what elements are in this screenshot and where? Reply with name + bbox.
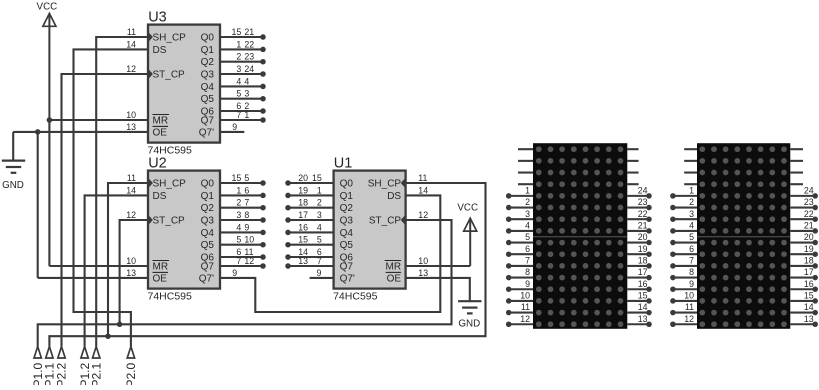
svg-text:Q4: Q4 [201, 82, 215, 93]
svg-text:21: 21 [638, 220, 648, 230]
svg-text:DS: DS [387, 191, 401, 202]
svg-text:16: 16 [804, 279, 814, 289]
svg-text:9: 9 [689, 279, 694, 289]
svg-text:Q3: Q3 [201, 70, 215, 81]
svg-text:14: 14 [638, 302, 648, 312]
svg-text:1: 1 [317, 185, 322, 195]
svg-text:SH_CP: SH_CP [153, 179, 187, 190]
svg-text:9: 9 [232, 122, 237, 132]
svg-text:22: 22 [804, 209, 814, 219]
svg-text:10: 10 [684, 291, 694, 301]
svg-text:4: 4 [236, 76, 241, 86]
svg-text:2: 2 [317, 198, 322, 208]
svg-text:5: 5 [236, 89, 241, 99]
svg-text:17: 17 [298, 210, 308, 220]
svg-text:Q5: Q5 [201, 94, 215, 105]
svg-text:13: 13 [126, 268, 136, 278]
svg-text:VCC: VCC [457, 202, 478, 213]
svg-text:12: 12 [520, 314, 530, 324]
svg-text:23: 23 [638, 197, 648, 207]
svg-text:4: 4 [689, 220, 694, 230]
svg-text:5: 5 [236, 235, 241, 245]
svg-text:6: 6 [525, 244, 530, 254]
svg-text:4: 4 [236, 222, 241, 232]
svg-text:8: 8 [525, 267, 530, 277]
svg-text:MR: MR [153, 262, 169, 273]
svg-text:9: 9 [232, 268, 237, 278]
svg-text:MR: MR [153, 116, 169, 127]
svg-text:15: 15 [298, 235, 308, 245]
svg-text:17: 17 [804, 267, 814, 277]
svg-text:12: 12 [126, 64, 136, 74]
svg-text:11: 11 [685, 302, 694, 312]
svg-text:24: 24 [244, 64, 254, 74]
svg-text:Q0: Q0 [201, 33, 215, 44]
svg-text:2: 2 [689, 197, 694, 207]
svg-text:19: 19 [638, 244, 648, 254]
svg-text:74HC595: 74HC595 [148, 291, 193, 303]
svg-text:5: 5 [317, 235, 322, 245]
svg-text:7: 7 [244, 198, 249, 208]
svg-text:Q4: Q4 [201, 228, 215, 239]
svg-text:5: 5 [689, 232, 694, 242]
svg-text:OE: OE [153, 127, 168, 138]
svg-text:19: 19 [804, 244, 814, 254]
svg-text:3: 3 [525, 209, 530, 219]
svg-text:Q7: Q7 [201, 262, 215, 273]
svg-text:Q0: Q0 [201, 179, 215, 190]
svg-text:Q5: Q5 [201, 240, 215, 251]
svg-text:ST_CP: ST_CP [153, 70, 186, 81]
svg-text:23: 23 [804, 197, 814, 207]
svg-text:15: 15 [312, 173, 322, 183]
svg-text:19: 19 [298, 185, 308, 195]
svg-text:SH_CP: SH_CP [368, 179, 402, 190]
svg-text:GND: GND [2, 180, 24, 191]
svg-text:13: 13 [298, 256, 308, 266]
svg-text:20: 20 [638, 232, 648, 242]
svg-text:Q7': Q7' [199, 273, 214, 284]
svg-text:9: 9 [317, 268, 322, 278]
svg-text:Q3: Q3 [201, 216, 215, 227]
svg-text:12: 12 [684, 314, 694, 324]
svg-text:P2.2: P2.2 [55, 362, 69, 385]
svg-text:Q1: Q1 [201, 45, 215, 56]
svg-text:11: 11 [418, 173, 427, 183]
svg-text:7: 7 [525, 256, 530, 266]
svg-text:4: 4 [525, 220, 530, 230]
svg-text:2: 2 [525, 197, 530, 207]
svg-text:1: 1 [525, 185, 530, 195]
svg-text:13: 13 [638, 314, 648, 324]
svg-text:Q7: Q7 [201, 116, 215, 127]
svg-text:3: 3 [244, 89, 249, 99]
svg-text:11: 11 [127, 173, 136, 183]
svg-text:3: 3 [236, 210, 241, 220]
svg-text:8: 8 [244, 210, 249, 220]
svg-text:1: 1 [244, 110, 249, 120]
svg-text:Q7': Q7' [340, 273, 355, 284]
svg-text:10: 10 [126, 110, 136, 120]
svg-text:2: 2 [236, 198, 241, 208]
svg-text:10: 10 [244, 235, 254, 245]
svg-text:Q7: Q7 [340, 262, 354, 273]
svg-text:15: 15 [232, 173, 242, 183]
svg-text:13: 13 [126, 122, 136, 132]
svg-text:17: 17 [638, 267, 648, 277]
svg-text:74HC595: 74HC595 [333, 291, 378, 303]
svg-text:13: 13 [418, 268, 428, 278]
svg-text:21: 21 [244, 27, 254, 37]
svg-text:Q2: Q2 [340, 203, 354, 214]
svg-text:5: 5 [525, 232, 530, 242]
svg-text:23: 23 [244, 52, 254, 62]
svg-text:P2.1: P2.1 [89, 362, 103, 385]
svg-text:Q7': Q7' [199, 127, 214, 138]
svg-text:13: 13 [804, 314, 814, 324]
svg-text:8: 8 [689, 267, 694, 277]
svg-text:7: 7 [236, 256, 241, 266]
svg-text:Q1: Q1 [340, 191, 354, 202]
svg-text:OE: OE [387, 273, 402, 284]
svg-text:21: 21 [804, 220, 814, 230]
svg-text:3: 3 [689, 209, 694, 219]
svg-text:10: 10 [126, 256, 136, 266]
svg-text:1: 1 [689, 185, 694, 195]
svg-text:9: 9 [525, 279, 530, 289]
svg-text:OE: OE [153, 273, 168, 284]
svg-text:18: 18 [298, 198, 308, 208]
svg-text:12: 12 [126, 210, 136, 220]
svg-text:15: 15 [638, 291, 648, 301]
svg-text:Q2: Q2 [201, 57, 215, 68]
svg-text:6: 6 [244, 185, 249, 195]
svg-text:2: 2 [236, 52, 241, 62]
svg-text:15: 15 [804, 291, 814, 301]
svg-text:4: 4 [317, 222, 322, 232]
svg-text:5: 5 [244, 173, 249, 183]
svg-text:14: 14 [126, 39, 136, 49]
svg-text:Q1: Q1 [201, 191, 215, 202]
svg-text:22: 22 [638, 209, 648, 219]
svg-text:12: 12 [244, 256, 254, 266]
svg-text:VCC: VCC [37, 1, 58, 12]
svg-text:Q2: Q2 [201, 203, 215, 214]
svg-text:24: 24 [638, 185, 648, 195]
svg-text:16: 16 [298, 222, 308, 232]
svg-text:7: 7 [236, 110, 241, 120]
svg-text:16: 16 [638, 279, 648, 289]
svg-text:DS: DS [153, 45, 167, 56]
svg-text:MR: MR [386, 262, 402, 273]
svg-text:24: 24 [804, 185, 814, 195]
svg-text:Q0: Q0 [340, 179, 354, 190]
svg-text:SH_CP: SH_CP [153, 33, 187, 44]
svg-text:14: 14 [418, 185, 428, 195]
svg-text:7: 7 [317, 256, 322, 266]
svg-text:10: 10 [418, 256, 428, 266]
svg-text:Q5: Q5 [340, 240, 354, 251]
svg-text:20: 20 [804, 232, 814, 242]
svg-text:ST_CP: ST_CP [369, 216, 402, 227]
svg-text:9: 9 [244, 222, 249, 232]
svg-text:20: 20 [298, 173, 308, 183]
svg-text:12: 12 [418, 210, 428, 220]
svg-text:ST_CP: ST_CP [153, 216, 186, 227]
svg-text:11: 11 [127, 27, 136, 37]
svg-text:22: 22 [244, 39, 254, 49]
svg-text:U1: U1 [334, 156, 353, 172]
svg-text:10: 10 [520, 291, 530, 301]
svg-text:1: 1 [236, 39, 241, 49]
svg-text:7: 7 [689, 256, 694, 266]
svg-text:U2: U2 [148, 156, 167, 172]
svg-text:6: 6 [689, 244, 694, 254]
svg-text:Q3: Q3 [340, 216, 354, 227]
svg-text:DS: DS [153, 191, 167, 202]
svg-text:11: 11 [521, 302, 530, 312]
svg-text:3: 3 [236, 64, 241, 74]
svg-text:U3: U3 [148, 10, 167, 26]
svg-text:P2.0: P2.0 [124, 362, 138, 385]
svg-text:14: 14 [804, 302, 814, 312]
svg-text:GND: GND [458, 319, 480, 330]
svg-text:18: 18 [638, 256, 648, 266]
svg-text:4: 4 [244, 76, 249, 86]
svg-text:Q4: Q4 [340, 228, 354, 239]
svg-text:18: 18 [804, 256, 814, 266]
svg-text:14: 14 [126, 185, 136, 195]
svg-text:1: 1 [236, 185, 241, 195]
svg-text:15: 15 [232, 27, 242, 37]
svg-text:3: 3 [317, 210, 322, 220]
